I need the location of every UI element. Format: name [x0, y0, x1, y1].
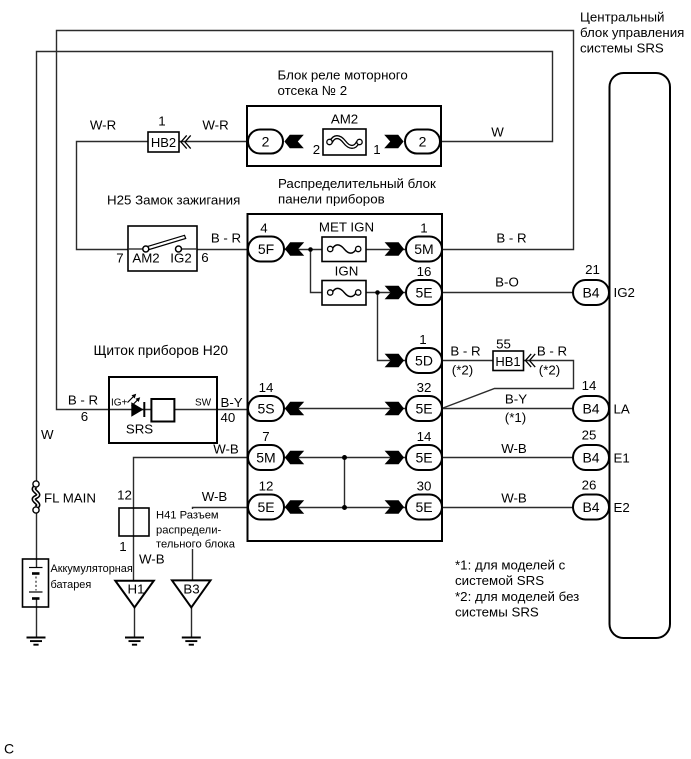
connector 5M pin1 — [406, 237, 442, 262]
svg-text:блок управления: блок управления — [580, 25, 684, 40]
svg-text:отсека № 2: отсека № 2 — [278, 83, 348, 98]
svg-text:7: 7 — [262, 429, 269, 444]
connector 5M pin7 — [248, 445, 284, 470]
svg-text:6: 6 — [81, 409, 88, 424]
svg-text:системой SRS: системой SRS — [455, 573, 544, 588]
battery cell plates — [29, 568, 43, 599]
svg-text:H1: H1 — [128, 582, 145, 597]
svg-text:W: W — [41, 427, 54, 442]
svg-text:5E: 5E — [415, 499, 432, 515]
fuse MET IGN — [322, 237, 366, 262]
wire B-O: 5E pin16 to B4 pin21 — [442, 292, 574, 294]
ground triangle H1 — [115, 581, 154, 608]
arrow left 5E12 — [285, 500, 304, 513]
svg-text:6: 6 — [201, 250, 208, 265]
fuse IGN — [322, 281, 366, 306]
svg-text:IG2: IG2 — [614, 285, 635, 300]
connector 5F — [248, 237, 284, 262]
svg-text:B4: B4 — [582, 401, 599, 417]
connector B4 pin14 LA — [573, 396, 609, 421]
svg-text:Щиток приборов H20: Щиток приборов H20 — [94, 343, 229, 358]
svg-text:5E: 5E — [415, 450, 432, 466]
fusible link AM2 in relay block — [323, 129, 366, 155]
arrow right 5E30 — [385, 500, 404, 513]
wire W net: FL MAIN to battery — [36, 510, 38, 567]
svg-text:Центральный: Центральный — [580, 10, 664, 25]
label Блок реле моторного отсека № 2 — [278, 68, 408, 99]
svg-text:(*2): (*2) — [539, 363, 560, 378]
connector 5E pin32 — [406, 396, 442, 421]
wire W-B: 5E pin30 to B4 pin26 — [442, 507, 574, 509]
svg-text:системы SRS: системы SRS — [580, 41, 664, 56]
label footnote — [455, 558, 579, 620]
svg-text:W-B: W-B — [213, 442, 239, 457]
connector B4 pin21 IG2 — [573, 280, 609, 305]
connector H41 box — [119, 508, 149, 536]
ground H1 — [125, 638, 144, 645]
svg-text:(*1): (*1) — [505, 410, 526, 425]
svg-text:SW: SW — [195, 398, 212, 409]
wire branch to 5D pin1 — [378, 293, 408, 361]
wire W-B: 5E pin14 to B4 pin25 — [442, 457, 574, 459]
svg-text:W-B: W-B — [501, 491, 527, 506]
svg-text:(*2): (*2) — [452, 363, 473, 378]
connector B4 pin25 E1 — [573, 445, 609, 470]
arrow left relay pin2 — [284, 135, 303, 148]
svg-text:Распределительный блок: Распределительный блок — [278, 176, 436, 191]
connector 5E pin12 — [248, 495, 284, 520]
svg-text:тельного блока: тельного блока — [156, 539, 236, 551]
svg-text:E2: E2 — [614, 500, 630, 515]
label Распределительный блок панели приборов — [278, 176, 436, 207]
svg-text:системы SRS: системы SRS — [455, 605, 539, 620]
arrow right relay pin2 — [384, 135, 403, 148]
svg-text:B - R: B - R — [496, 231, 526, 246]
svg-text:E1: E1 — [614, 451, 630, 466]
svg-text:32: 32 — [417, 380, 432, 395]
svg-text:B-O: B-O — [495, 275, 519, 290]
wire junction vertical 5M7-5E12 rows — [344, 458, 346, 508]
label H41 Разъем распределительного блока — [154, 509, 236, 551]
svg-text:C: C — [4, 741, 14, 757]
svg-text:Блок реле моторного: Блок реле моторного — [278, 68, 408, 83]
svg-text:2: 2 — [262, 134, 270, 150]
svg-text:B - R: B - R — [68, 393, 98, 408]
svg-text:5S: 5S — [257, 401, 274, 417]
SRS ECU rounded box — [610, 73, 671, 638]
svg-text:MET IGN: MET IGN — [319, 220, 374, 235]
svg-text:H25 Замок зажигания: H25 Замок зажигания — [107, 193, 240, 208]
svg-text:1: 1 — [119, 539, 126, 554]
svg-text:батарея: батарея — [51, 579, 92, 591]
wire W-R: relay pin2 left to HB2 to ignition switch pin7 — [77, 142, 248, 250]
svg-text:IG2: IG2 — [170, 251, 191, 266]
svg-text:1: 1 — [420, 221, 427, 236]
svg-text:25: 25 — [582, 428, 597, 443]
arrow right 5E32 — [385, 402, 404, 415]
svg-text:1: 1 — [373, 142, 380, 157]
svg-text:5F: 5F — [258, 241, 274, 257]
svg-text:AM2: AM2 — [331, 112, 358, 127]
wire battery negative to ground — [36, 599, 38, 638]
svg-text:W-B: W-B — [139, 552, 165, 567]
svg-text:B-Y: B-Y — [221, 395, 243, 410]
svg-text:Н41 Разъем: Н41 Разъем — [156, 510, 219, 522]
ground battery — [27, 638, 46, 645]
junction node 5F/IGN — [308, 247, 313, 252]
svg-text:IGN: IGN — [335, 264, 359, 279]
connector B4 pin26 E2 — [573, 495, 609, 520]
svg-text:55: 55 — [496, 337, 511, 352]
svg-text:30: 30 — [417, 479, 432, 494]
svg-text:5M: 5M — [256, 450, 275, 466]
relay block box (Блок реле моторного отсека № 2) — [247, 106, 441, 166]
battery box — [23, 559, 49, 607]
wire inside H20 cluster — [109, 409, 217, 411]
svg-text:40: 40 — [221, 410, 236, 425]
svg-text:14: 14 — [417, 429, 432, 444]
svg-text:2: 2 — [313, 142, 320, 157]
label Аккумуляторная батарея — [51, 563, 133, 591]
svg-text:14: 14 — [259, 380, 274, 395]
wire W-B: 5M pin7 left, down through H41 to H1 ground — [134, 458, 249, 581]
connector 2 relay right — [405, 130, 440, 154]
svg-text:26: 26 — [582, 478, 597, 493]
arrow left 5S — [285, 402, 304, 415]
svg-text:W: W — [491, 125, 504, 140]
instrument cluster box H20 — [109, 377, 217, 443]
svg-text:7: 7 — [116, 251, 123, 266]
svg-text:B - R: B - R — [450, 344, 480, 359]
connector 2 relay left — [248, 130, 283, 154]
wire 5E pin12 row inside block — [284, 507, 407, 509]
svg-text:W-B: W-B — [202, 489, 228, 504]
arrow left 5M7 — [285, 451, 304, 464]
connector 5S pin14 — [248, 396, 284, 421]
ground B3 — [182, 638, 201, 645]
svg-text:5E: 5E — [257, 499, 274, 515]
junction node row7 — [342, 455, 347, 460]
svg-text:Аккумуляторная: Аккумуляторная — [51, 563, 133, 575]
wire B-R net: 5M pin1 across top, down left side to H20 pin6 — [57, 31, 574, 410]
svg-text:12: 12 — [117, 488, 132, 503]
label Центральный блок управления системы SRS — [580, 10, 684, 56]
svg-text:FL MAIN: FL MAIN — [44, 491, 96, 506]
arrow right 5M — [385, 242, 404, 255]
ignition switch box H25 — [128, 226, 197, 271]
svg-text:HB1: HB1 — [495, 354, 520, 369]
svg-text:HB2: HB2 — [151, 135, 176, 150]
connector 5E pin30 — [406, 495, 442, 520]
arrow right 5D — [385, 354, 404, 367]
arrow left 5F — [285, 242, 304, 255]
ground triangle B3 — [172, 580, 211, 607]
FL MAIN fusible link — [33, 481, 39, 513]
svg-text:5M: 5M — [414, 241, 433, 257]
svg-text:5E: 5E — [415, 401, 432, 417]
svg-text:панели приборов: панели приборов — [278, 192, 385, 207]
svg-text:B4: B4 — [582, 450, 599, 466]
svg-text:SRS: SRS — [126, 422, 153, 437]
distribution block box (Распределительный блок панели приборов) — [248, 214, 443, 541]
svg-text:5E: 5E — [415, 285, 432, 301]
wire B3 triangle to ground — [191, 607, 193, 637]
wire W net: relay pin2 right, across top, down left to FL MAIN — [37, 52, 553, 485]
svg-text:1: 1 — [419, 332, 426, 347]
wire 5M pin7 row inside block — [284, 457, 407, 459]
wire W-B: 5E pin12 left and down to B3 ground — [193, 508, 249, 581]
wire H1 triangle to ground — [134, 607, 136, 637]
svg-text:21: 21 — [585, 262, 600, 277]
connector HB1 — [493, 351, 535, 371]
wire B-Y (*1): 5E pin32 to B4 pin14 — [442, 408, 574, 410]
wire B-R: switch pin6 to 5F — [197, 249, 250, 251]
svg-text:16: 16 — [417, 264, 432, 279]
svg-text:IG+: IG+ — [111, 398, 128, 409]
svg-text:B3: B3 — [183, 582, 199, 597]
svg-text:4: 4 — [260, 221, 267, 236]
svg-text:B - R: B - R — [537, 344, 567, 359]
svg-text:B4: B4 — [582, 285, 599, 301]
junction node IGN/5D — [375, 290, 380, 295]
svg-text:W-R: W-R — [90, 118, 116, 133]
svg-text:1: 1 — [158, 114, 165, 129]
wire IGN branch: junction down through IGN fuse to 5E pin16 — [311, 250, 408, 293]
connector 5E pin16 — [406, 280, 442, 305]
wire B-R (*2): 5D through HB1, back to 5E pin32 — [442, 361, 574, 409]
SRS unit square in cluster — [151, 399, 174, 422]
svg-text:AM2: AM2 — [132, 251, 159, 266]
svg-text:LA: LA — [614, 402, 630, 417]
svg-text:B4: B4 — [582, 499, 599, 515]
svg-text:B - R: B - R — [211, 231, 241, 246]
SRS warning LED in cluster — [128, 394, 145, 417]
svg-text:5D: 5D — [415, 353, 433, 369]
svg-text:*1: для моделей с: *1: для моделей с — [455, 558, 566, 573]
svg-text:14: 14 — [582, 378, 597, 393]
connector HB2 — [148, 132, 191, 152]
svg-text:распредели-: распредели- — [156, 525, 221, 537]
connector 5D pin1 — [406, 348, 442, 373]
wire 5S row to 5E pin32 — [284, 408, 407, 410]
arrow right 5E16 — [385, 286, 404, 299]
svg-text:*2: для моделей без: *2: для моделей без — [455, 589, 579, 604]
connector 5E pin14 — [406, 445, 442, 470]
svg-text:B-Y: B-Y — [505, 392, 527, 407]
svg-text:W-B: W-B — [501, 441, 527, 456]
svg-text:2: 2 — [419, 134, 427, 150]
wire 5F row through MET IGN fuse to 5M — [284, 249, 407, 251]
wire B-Y: H20 pin40 to 5S — [217, 409, 250, 411]
ignition switch contacts and lever — [128, 235, 197, 252]
svg-text:W-R: W-R — [202, 118, 228, 133]
junction node row12 — [342, 505, 347, 510]
svg-text:12: 12 — [259, 479, 274, 494]
arrow right 5E14 — [385, 451, 404, 464]
